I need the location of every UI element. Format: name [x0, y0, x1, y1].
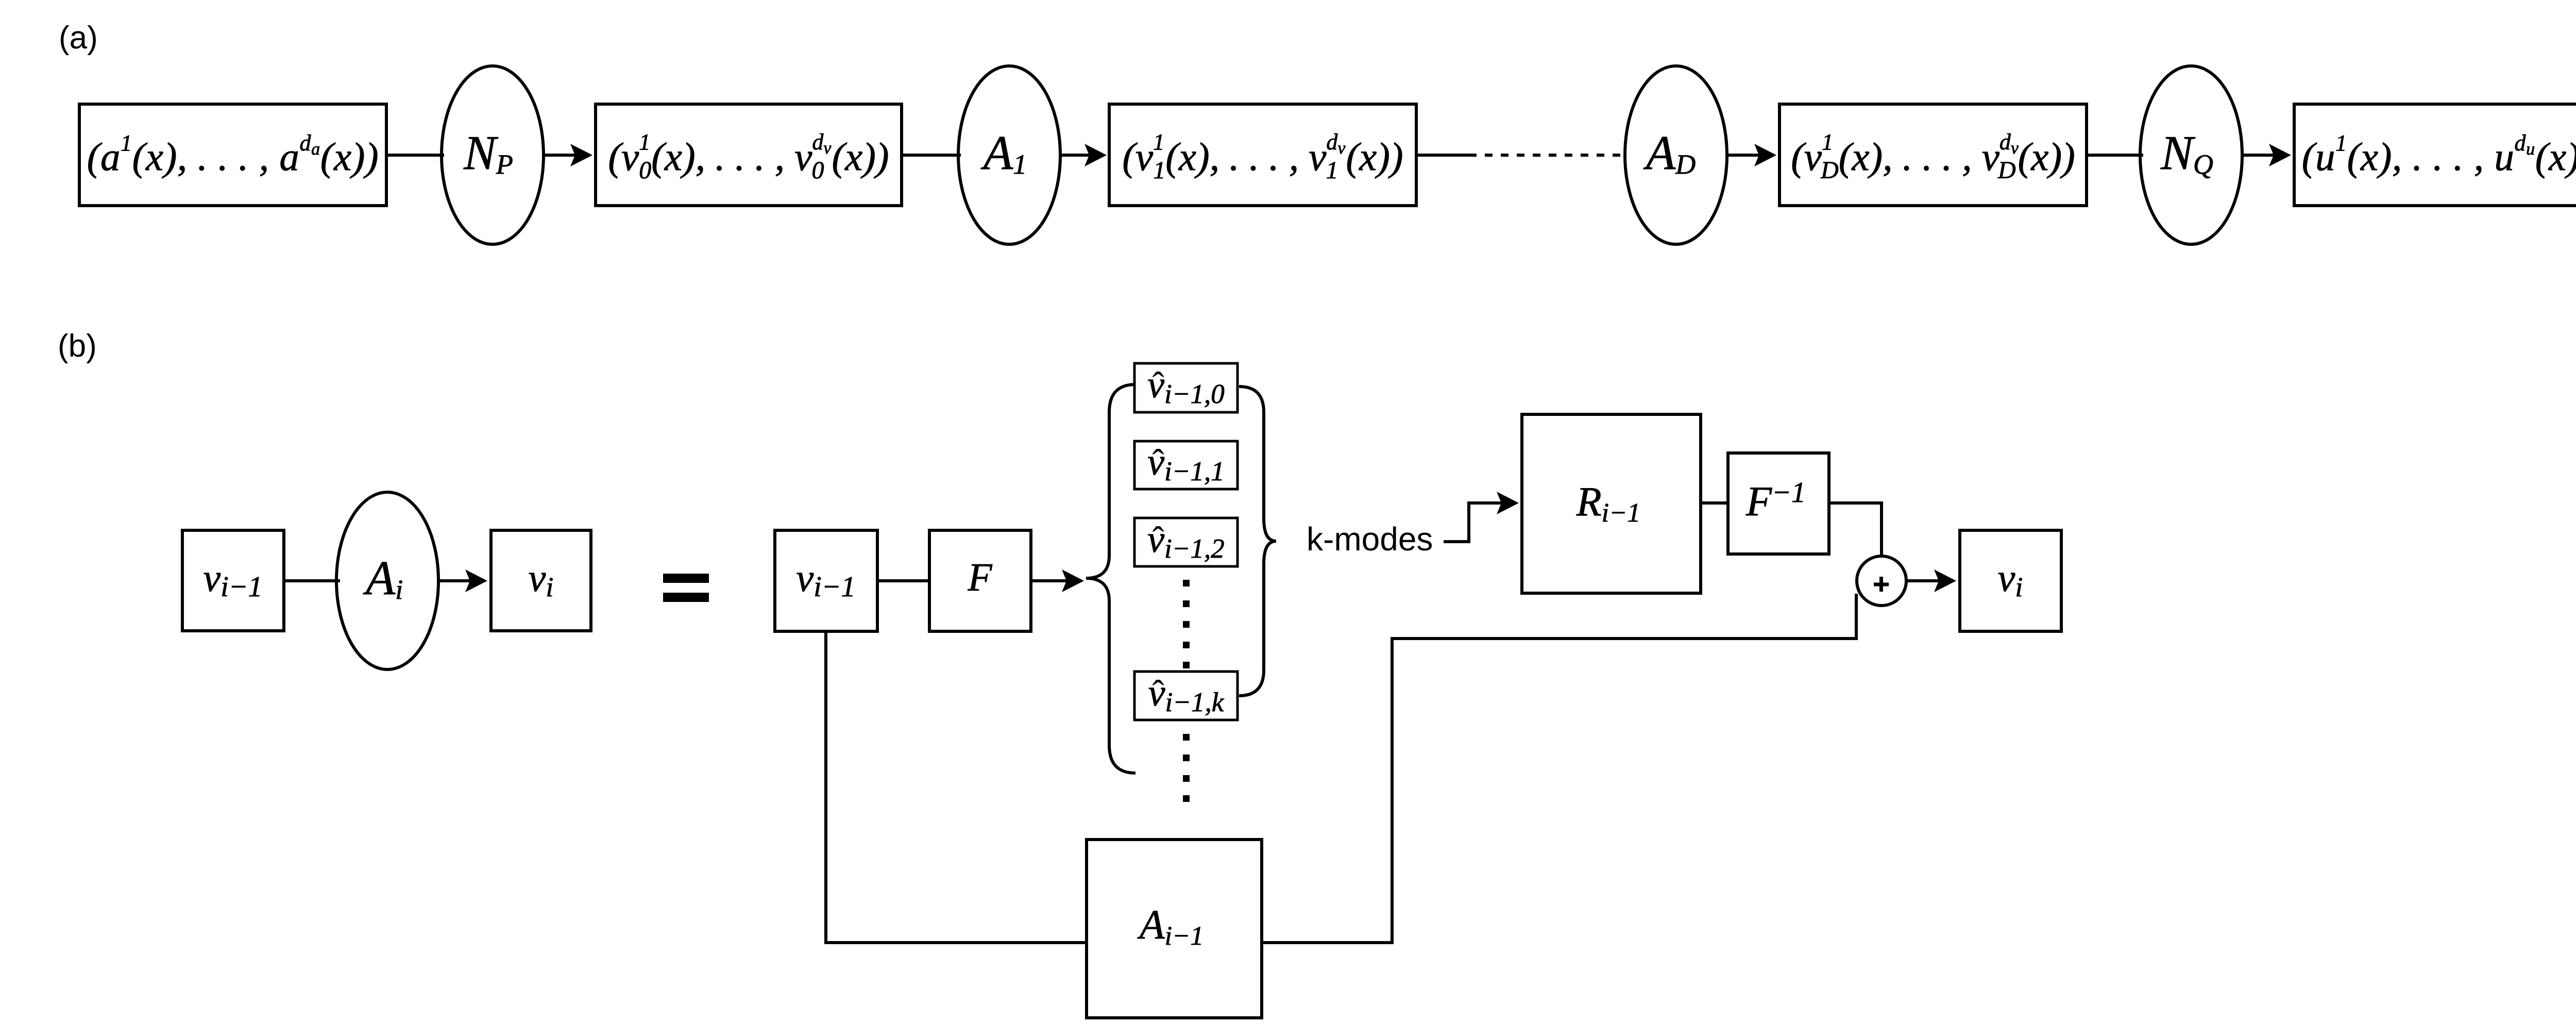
- ellipse Ai: [336, 492, 438, 669]
- wire k-modes to R with step: [1444, 503, 1502, 542]
- svg-text:(v1D(x), . . . , vdvD(x)): (v1D(x), . . . , vdvD(x)): [1791, 129, 2075, 184]
- svg-text:ˆ: ˆ: [1152, 443, 1164, 482]
- svg-text:ˆ: ˆ: [1152, 674, 1164, 713]
- box vhat_{i-1,1}: [1134, 441, 1238, 489]
- box F: [929, 530, 1031, 631]
- ellipse AD: [1625, 66, 1727, 244]
- box (a1(x),...,ada(x)): [79, 104, 386, 206]
- arrow NQ to box5: [2242, 154, 2275, 157]
- arrow NP to box2: [544, 154, 576, 157]
- box v_{i-1} right: [775, 530, 877, 631]
- box vi right: [1960, 530, 2061, 631]
- wire R to Finv: [1701, 501, 1729, 505]
- svg-text:k-modes: k-modes: [1307, 521, 1433, 558]
- ellipse NP: [442, 66, 544, 244]
- box vhat_{i-1,k}: [1134, 672, 1238, 720]
- svg-text:vi−1: vi−1: [796, 557, 855, 603]
- box A_{i-1}: [1087, 840, 1262, 1018]
- box R_{i-1}: [1522, 414, 1701, 593]
- svg-text:vi: vi: [1998, 557, 2023, 602]
- box v_{i-1} left: [182, 530, 284, 631]
- ellipse NQ: [2140, 66, 2242, 244]
- wire box1 to NP: [386, 154, 444, 157]
- wire A_{i-1} to plus: [1262, 594, 1856, 943]
- svg-text:Ri−1: Ri−1: [1576, 479, 1640, 528]
- svg-text:A1: A1: [980, 126, 1027, 180]
- wire Finv to plus: [1829, 503, 1882, 558]
- box vhat_{i-1,0}: [1134, 363, 1238, 412]
- box (vD1(x),...,vDdv(x)): [1780, 104, 2087, 206]
- box vi left: [491, 530, 591, 631]
- box (v01(x),...,v0dv(x)): [596, 104, 902, 206]
- svg-text:ˆ: ˆ: [1152, 365, 1164, 405]
- svg-text:(u1(x), . . . , udu(x)): (u1(x), . . . , udu(x)): [2302, 130, 2576, 179]
- box (u1(x),...,udu(x)): [2294, 104, 2576, 206]
- svg-text:NP: NP: [463, 126, 513, 180]
- svg-text:vi: vi: [529, 557, 554, 602]
- svg-text:Ai: Ai: [363, 551, 403, 605]
- wire box2 to A1: [903, 154, 961, 157]
- wire v_{i-1} to F: [877, 579, 930, 582]
- svg-text:(a): (a): [59, 20, 98, 56]
- dots between stack boxes: [1183, 580, 1190, 668]
- svg-text:(v11(x), . . . , vdv1(x)): (v11(x), . . . , vdv1(x)): [1122, 129, 1403, 184]
- box (v11(x),...,v1dv(x)): [1109, 104, 1416, 206]
- right brace of stack: [1239, 387, 1276, 696]
- arrow AD to box4: [1727, 154, 1760, 157]
- svg-text:AD: AD: [1643, 126, 1696, 180]
- svg-text:(a1(x), . . . , ada(x)): (a1(x), . . . , ada(x)): [87, 130, 379, 179]
- wire box4 to NQ: [2088, 154, 2143, 157]
- svg-text:ˆ: ˆ: [1152, 520, 1164, 560]
- arrow Ai to vi: [438, 579, 471, 582]
- wire v_{i-1} to Ai: [284, 579, 340, 582]
- arrow plus to vi: [1906, 579, 1940, 582]
- dots below stack: [1183, 734, 1190, 802]
- ellipse A1: [958, 66, 1060, 244]
- left brace of stack: [1086, 384, 1136, 773]
- svg-text:vi−1: vi−1: [203, 557, 262, 603]
- arrow F to stack: [1031, 579, 1067, 582]
- svg-text:(v10(x), . . . , vdv0(x)): (v10(x), . . . , vdv0(x)): [608, 129, 889, 184]
- svg-text:F: F: [967, 555, 992, 599]
- svg-text:NQ: NQ: [2160, 126, 2213, 180]
- svg-text:F−1: F−1: [1745, 477, 1806, 525]
- arrow A1 to box3: [1060, 154, 1090, 157]
- box vhat_{i-1,2}: [1134, 518, 1238, 566]
- plus circle: [1857, 556, 1906, 606]
- svg-text:(b): (b): [58, 328, 97, 364]
- wire box3 solid then dashed to AD: [1418, 154, 1477, 157]
- box Finv: [1728, 453, 1829, 554]
- svg-text:Ai−1: Ai−1: [1137, 902, 1204, 951]
- wire v_{i-1} down to A_{i-1}: [826, 631, 1087, 943]
- equals sign: [663, 574, 709, 583]
